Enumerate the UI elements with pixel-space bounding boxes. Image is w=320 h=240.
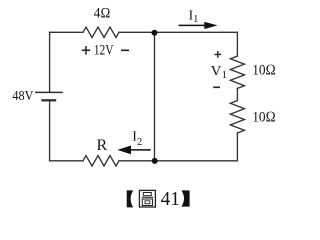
label minus of 12V (drawn): [121, 49, 129, 51]
caption character tu divider line: [142, 196, 154, 198]
svg-text:10Ω: 10Ω: [252, 62, 276, 78]
current I1 arrow line: [179, 24, 207, 26]
svg-text:48V: 48V: [12, 88, 33, 103]
svg-text:41: 41: [161, 189, 180, 210]
current I2 arrowhead: [117, 146, 131, 155]
wire left vertical upper (battery to top-left corner): [49, 32, 51, 92]
wire bottom rail right (corner to node B): [119, 160, 237, 162]
caption character tu bottom outer box: [142, 199, 152, 206]
caption left lenticular bracket: [127, 190, 134, 207]
wire top rail right (resistor to top-right corner, through node A): [119, 31, 237, 33]
svg-text:10Ω: 10Ω: [252, 109, 276, 125]
label minus of V1 (drawn): [213, 86, 220, 88]
current I2 arrow line: [129, 149, 151, 151]
node B junction dot: [152, 158, 158, 164]
svg-text:4Ω: 4Ω: [94, 6, 111, 22]
svg-text:I2: I2: [132, 130, 142, 148]
svg-text:R: R: [97, 137, 108, 154]
wire right vertical middle (between 10ohm resistors): [236, 88, 238, 100]
current I1 arrowhead: [204, 22, 217, 29]
caption right lenticular bracket: [181, 190, 189, 206]
caption character tu top small box: [143, 193, 151, 196]
wire left vertical lower (battery to bottom-left corner): [49, 100, 51, 160]
caption character tu bottom inner box: [145, 201, 150, 204]
resistor 10ohm upper zigzag: [230, 56, 244, 88]
resistor 10ohm lower zigzag: [230, 101, 244, 133]
caption character tu (figure) outer box: [139, 190, 155, 207]
svg-text:I1: I1: [189, 8, 199, 25]
wire top rail left (corner to resistor 4ohm): [50, 31, 83, 33]
wire bottom rail left (resistor R to bottom-left corner): [50, 160, 83, 162]
wire right vertical upper: [236, 32, 238, 56]
svg-text:12V: 12V: [94, 43, 114, 59]
battery 48V long plate: [35, 91, 63, 93]
wire middle vertical (node A to node B): [154, 32, 156, 161]
node A junction dot: [152, 30, 158, 36]
label plus of V1 (drawn): [214, 51, 221, 58]
resistor 4ohm zigzag: [83, 27, 119, 37]
label plus of 12V (drawn): [82, 46, 90, 55]
svg-text:V1: V1: [211, 63, 227, 81]
resistor R zigzag: [83, 156, 119, 166]
wire right vertical lower: [236, 133, 238, 161]
battery 48V short plate: [41, 99, 56, 101]
